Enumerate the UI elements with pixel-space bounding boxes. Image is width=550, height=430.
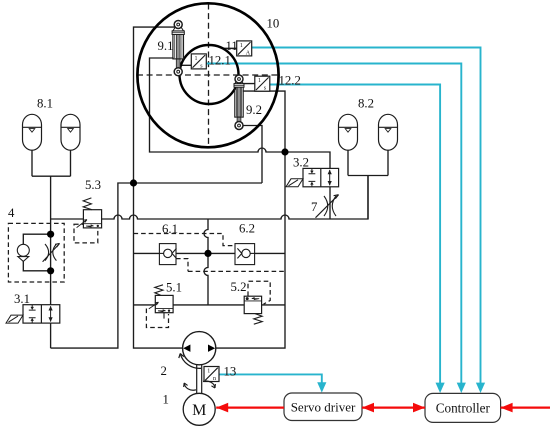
svg-text:A: A (246, 50, 251, 56)
svg-text:5.2: 5.2 (231, 280, 247, 294)
svg-text:n: n (213, 376, 216, 382)
svg-text:8.1: 8.1 (37, 97, 53, 111)
svg-text:M: M (192, 402, 206, 419)
svg-text:11: 11 (226, 39, 238, 53)
svg-text:3.1: 3.1 (14, 292, 30, 306)
svg-text:3.2: 3.2 (293, 156, 309, 170)
svg-text:5.3: 5.3 (85, 178, 101, 192)
svg-text:1: 1 (163, 393, 169, 407)
svg-text:12.2: 12.2 (279, 74, 301, 88)
svg-text:Controller: Controller (436, 401, 491, 416)
svg-text:1: 1 (207, 369, 210, 375)
svg-text:Servo driver: Servo driver (291, 400, 356, 415)
svg-text:1: 1 (258, 78, 261, 84)
svg-text:6.2: 6.2 (239, 222, 255, 236)
svg-text:7: 7 (311, 200, 318, 214)
svg-text:8.2: 8.2 (358, 97, 374, 111)
svg-text:1: 1 (240, 43, 243, 49)
svg-text:10: 10 (267, 17, 280, 31)
svg-text:9.1: 9.1 (158, 39, 174, 53)
svg-text:12.1: 12.1 (209, 54, 231, 68)
svg-text:1: 1 (195, 56, 198, 62)
svg-text:4: 4 (8, 206, 15, 220)
svg-text:13: 13 (224, 365, 237, 379)
svg-text:6.1: 6.1 (162, 222, 178, 236)
svg-text:2: 2 (161, 364, 167, 378)
svg-text:9.2: 9.2 (246, 103, 262, 117)
svg-text:5.1: 5.1 (166, 281, 182, 295)
